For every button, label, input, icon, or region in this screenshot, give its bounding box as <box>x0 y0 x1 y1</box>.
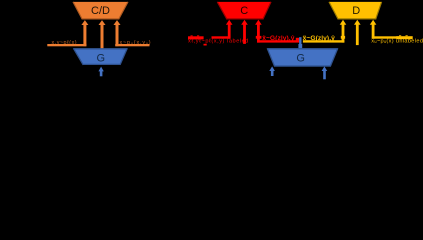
wire labeled data into C <box>212 36 231 38</box>
wire right data into C/D <box>115 44 149 46</box>
arrow middle into C <box>241 20 248 44</box>
arrow labeled-data into C (left) <box>226 20 233 39</box>
descender speck (red) <box>204 44 207 46</box>
svg-text:xᵤ~pᵤ(x) unlabeled: xᵤ~pᵤ(x) unlabeled <box>371 39 423 45</box>
arrow middle from G into C/D <box>99 20 106 48</box>
generator output stub (blue) <box>298 37 302 48</box>
wire real data into D <box>372 36 400 38</box>
noise arrow z into G (left diagram) <box>98 67 103 77</box>
arrow left into C/D <box>81 20 88 46</box>
svg-text:x̃~G(z|y),ŷ: x̃~G(z|y),ŷ <box>302 35 335 42</box>
wire fake samples to C <box>257 40 299 42</box>
svg-text:x,y~pℓ(x): x,y~pℓ(x) <box>52 40 78 46</box>
arrow right into C/D <box>114 20 121 46</box>
trapezoid G generator (right) <box>267 48 338 66</box>
arrow middle into D <box>354 20 361 45</box>
red blob at junction (wire end) <box>296 38 299 41</box>
svg-text:xℓ,yℓ~pℓ(x,y) labeled: xℓ,yℓ~pℓ(x,y) labeled <box>188 38 249 44</box>
trapezoid C/D (combined classifier/discriminator) <box>73 2 128 20</box>
arrow fake samples into C (right) <box>255 20 262 43</box>
wire left data into C/D <box>47 44 86 46</box>
label arrow y into G right diagram (right) <box>322 66 328 79</box>
label x,y~pl (red, left of wire) <box>188 36 204 39</box>
arrow real data into D (right) <box>370 20 377 39</box>
trapezoid D discriminator <box>329 2 382 20</box>
svg-text:G: G <box>296 53 305 65</box>
joint blob at C right-arrow bend <box>256 36 262 39</box>
wire fake samples to D (yellow) <box>303 40 344 42</box>
svg-text:C: C <box>240 5 248 17</box>
label x~p (yellow, right of wire) <box>396 36 412 39</box>
trapezoid G generator (left) <box>73 48 127 65</box>
svg-text:x~pᵤ(x,yᵤ): x~pᵤ(x,yᵤ) <box>120 40 152 46</box>
svg-text:x̃~G(z|y),ŷ: x̃~G(z|y),ŷ <box>262 35 295 42</box>
svg-text:D: D <box>352 5 360 17</box>
svg-text:C/D: C/D <box>91 5 110 17</box>
arrow fake samples into D (left) <box>340 20 347 43</box>
trapezoid C classifier <box>217 2 271 20</box>
noise arrow z into G right diagram (left) <box>269 66 275 76</box>
svg-text:G: G <box>97 52 106 64</box>
joint blob at D left-arrow bend <box>341 36 345 39</box>
